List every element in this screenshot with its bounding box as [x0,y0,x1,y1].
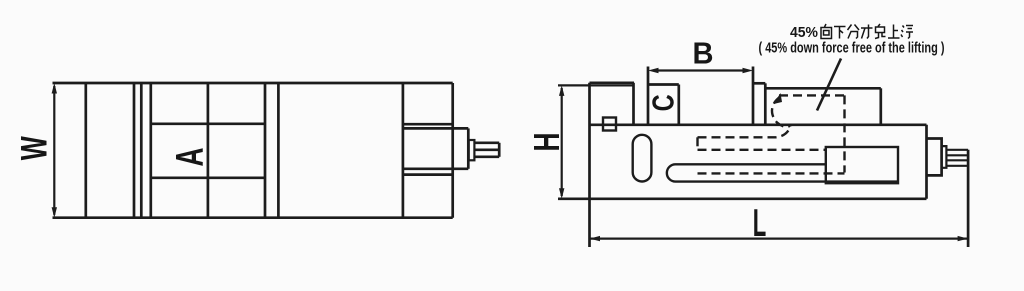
screw shaft bottom line [474,155,499,158]
screw shaft top line [474,141,499,144]
arrow B left [648,68,659,73]
force arrow head [774,93,783,104]
arrow H top [559,85,564,96]
vertical slot [633,135,652,182]
wire vertical 151 [149,83,152,218]
C box right edge [677,85,680,125]
collar step [942,146,947,168]
screw housing right edge [467,128,470,168]
right band line y175 [403,173,453,176]
svg-text:B: B [693,37,714,71]
annotation leader line [817,59,841,111]
step edge [764,83,767,125]
body right edge [925,125,928,199]
dimension H line [561,88,563,196]
collar block [927,139,942,176]
right band line y169 [403,167,468,170]
wire vertical 208 [207,83,210,218]
char li [861,25,873,39]
body top line [590,123,927,126]
long slot bottom line [676,180,899,182]
body bottom [558,197,927,200]
wire vertical 403 [402,83,405,218]
screw step block [469,140,475,160]
shaft line 1 [946,149,968,151]
fixed jaw top line lower / H extension [558,84,634,86]
bottom edge [53,216,453,219]
dimension B line [658,69,743,71]
screw shaft mid line [474,148,499,151]
dashed hidden mechanism [698,95,845,173]
dashed screw bottom line [698,172,845,174]
dimension W line [53,86,55,215]
arrow H bottom [559,188,564,199]
fixed jaw right edge [632,83,635,125]
char shang [888,25,900,39]
body right edge [451,83,454,218]
jaw plate square [603,118,616,131]
dashed force hook curve [772,97,790,127]
svg-text:W: W [13,136,54,160]
dashed screw mid line [698,149,827,151]
body left edge / L extension [588,83,591,247]
nut block rectangle [826,147,898,183]
arrow B right [743,68,754,73]
dashed left vertical [696,137,698,150]
long slot top line [676,163,827,165]
char xiang [821,24,832,39]
C box top [648,83,679,86]
band top line [151,122,265,125]
shaft line 2 [946,154,968,156]
screw shaft end [498,143,501,157]
top edge [53,82,453,85]
char fen [848,25,860,39]
movable jaw rear edge / B extension [752,67,755,125]
arrow L left [590,236,601,241]
char xia [834,27,846,39]
band bottom line [151,176,265,179]
step top [753,82,765,85]
wire vertical 141 [140,83,143,218]
annotation chinese glyphs (drawn strokes) [821,24,913,39]
C box left edge / B extension [647,67,650,125]
svg-text:( 45% down force free of the l: ( 45% down force free of the lifting ) [759,41,945,57]
char fu [901,26,913,39]
dimension L line [590,238,969,240]
arrow W top [52,83,57,94]
wire vertical 278 [277,83,280,218]
shaft line 4 [946,165,968,167]
arrow W bottom [52,207,57,218]
wire vertical 265 [264,83,267,218]
char mian [875,24,886,39]
fixed jaw top line upper [590,81,635,84]
long slot left cap [667,164,676,181]
wire vertical 134 [133,83,136,218]
dashed screw top with curl [698,125,792,138]
rear block right edge [879,88,882,125]
svg-text:A: A [169,148,212,167]
svg-text:H: H [526,133,567,152]
shaft end / L extension [967,150,970,247]
svg-text:C: C [646,94,681,111]
right band line y128 [403,127,468,130]
svg-text:45%: 45% [790,24,818,41]
shaft line 3 [946,159,968,161]
svg-text:L: L [753,202,767,245]
arrow L right [958,236,969,241]
body left edge [84,83,87,218]
right band line y124 [403,123,453,126]
dashed right vertical [843,95,845,172]
rear block top [765,87,881,90]
dashed top line [779,94,845,96]
